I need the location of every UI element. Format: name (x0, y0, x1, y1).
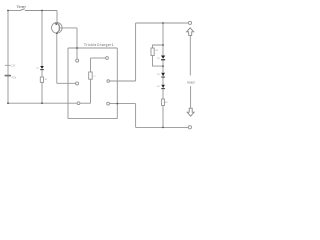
junction top left corner (7, 10, 9, 12)
wire top right rail (136, 22, 189, 24)
wire inner chain top horizontal (91, 57, 106, 59)
resistor R4 body (162, 99, 165, 106)
junction node right crossing (116, 103, 118, 105)
junction node Q1 emitter (56, 32, 58, 34)
svg-text:D3: D3 (157, 74, 161, 76)
wire x135 lower vertical (135, 104, 137, 128)
diode D4 triangle (161, 85, 165, 88)
svg-text:Timer: Timer (17, 5, 27, 9)
connector arrow up (187, 28, 194, 36)
wire base lead drop to box (76, 28, 78, 48)
pin circle P3 (77, 102, 80, 105)
resistor R2 body inner (89, 72, 93, 79)
wire bottom rail segment right of P3 (80, 102, 91, 104)
diode D1 bar (40, 68, 44, 71)
resistor R1 body (40, 77, 43, 82)
box U1 lower left leg (67, 103, 69, 118)
junction node x42 bottom (41, 102, 43, 104)
diode D2 bar (161, 59, 165, 60)
svg-text:R4: R4 (165, 102, 169, 104)
battery B1 plate short thick (5, 75, 11, 77)
wire diode chain segment (162, 60, 164, 73)
wire collector drop (56, 11, 58, 23)
wire bottom left rail (8, 102, 77, 104)
transistor Q1 collector diagonal (57, 23, 59, 26)
box U1 right edge (116, 48, 118, 119)
wire diode chain bottom (162, 106, 164, 128)
svg-text:12V: 12V (11, 66, 16, 68)
pin circle P4 (106, 57, 109, 60)
svg-text:D4: D4 (157, 86, 161, 88)
transistor Q1 circle (52, 23, 63, 34)
diode D3 bar (161, 76, 165, 79)
svg-text:D2: D2 (157, 58, 161, 60)
wire branch x42 vertical (41, 11, 43, 67)
resistor R3 body (151, 48, 154, 56)
terminal circle T1 (188, 21, 191, 24)
junction node diode chain top (162, 22, 164, 24)
wire from P5 to right (110, 80, 136, 82)
wire top rail left (8, 10, 20, 12)
wire diode chain segment (162, 77, 164, 84)
svg-text:load: load (187, 80, 194, 84)
svg-text:4.5V: 4.5V (11, 77, 16, 79)
load line upper (189, 35, 191, 75)
svg-text:D1: D1 (36, 68, 40, 70)
wire branch to R3 (153, 45, 164, 48)
box U1 top edge (68, 47, 117, 49)
wire between D1 and R1 (41, 70, 43, 77)
wire emitter vertical (56, 33, 58, 83)
pin circle P6 (107, 102, 110, 105)
pin circle P5 (107, 80, 110, 83)
transistor Q1 emitter diagonal (57, 30, 59, 33)
wire battery left vertical (7, 11, 9, 104)
svg-text:R3: R3 (155, 50, 159, 52)
wire base lead (59, 27, 77, 29)
switch S1 blade (20, 9, 25, 11)
junction node R3 branch (162, 44, 164, 46)
wire from P6 to right (110, 103, 136, 105)
load line lower (190, 86, 192, 108)
svg-text:TrickleCharger1: TrickleCharger1 (84, 43, 114, 47)
pin circle P2 (76, 82, 79, 85)
wire inner chain below resistor (90, 79, 92, 103)
wire diode chain top (162, 23, 164, 45)
wire bottom right rail (136, 126, 189, 128)
wire pin1 lead inside box (76, 48, 78, 59)
battery B1 plate long (5, 64, 11, 66)
wire R1 bottom (41, 82, 43, 103)
junction node rail left end (7, 102, 9, 104)
wire diode chain segment (162, 89, 164, 99)
svg-text:R2: R2 (93, 76, 97, 78)
wire inner chain drop (90, 58, 92, 72)
junction node box top (76, 47, 78, 49)
diode D3 triangle (161, 73, 165, 77)
transistor Q1 arrow (55, 23, 57, 25)
wire top rail right of switch (25, 10, 57, 12)
connector arrow down (187, 108, 194, 116)
wire emitter horizontal to box (57, 82, 76, 84)
svg-text:R1: R1 (45, 79, 49, 81)
pin circle P1 (76, 59, 79, 62)
transistor Q1 base bar (58, 25, 60, 31)
junction node bottom rail (162, 127, 164, 129)
wire R3 bottom return (153, 56, 164, 67)
box U1 left edge (67, 48, 69, 103)
box U1 lower bottom edge (68, 118, 117, 120)
junction node x42 top (41, 10, 43, 12)
wire x135 vertical (135, 23, 137, 81)
diode D1 triangle (40, 66, 44, 69)
wire diode chain segment (162, 45, 164, 55)
junction node R3 return (162, 65, 164, 67)
terminal circle T2 (188, 126, 191, 129)
diode D2 triangle (161, 56, 165, 59)
diode D4 bar (161, 87, 165, 90)
